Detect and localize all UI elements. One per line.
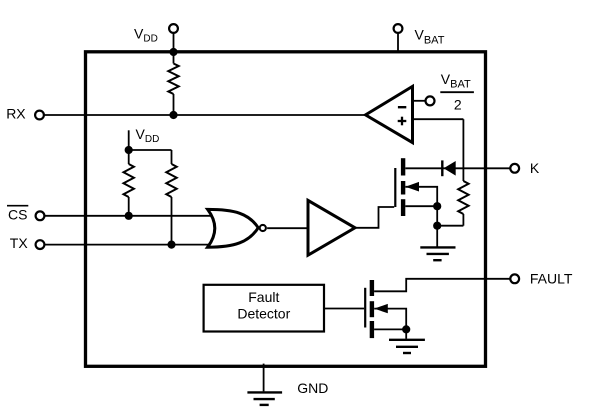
transistor Q2 (FAULT output NMOS) [365,280,388,338]
resistor R4 (K sense) [437,119,468,226]
pin K terminal [510,160,540,176]
wire buffer output to Q1 gate [355,207,394,228]
wire NOR output to buffer [267,227,309,229]
wire to ground [436,226,438,247]
pin FAULT terminal [510,270,573,286]
node resistor R4 junction [433,222,441,230]
node Q2 source junction [402,325,410,333]
node TX junction [167,241,175,249]
NOR gate U1 [208,209,266,247]
wire inverting input [413,100,426,102]
wire CS line to NOR input [44,215,214,217]
wire VDD stub [128,130,130,150]
wire K line (Q1 drain to K pin) [405,167,510,169]
svg-text:2: 2 [454,96,462,112]
pin RX terminal [6,105,44,121]
ground (below Q2) [389,340,425,353]
svg-text:RX: RX [6,105,26,121]
resistor R2 (pull-up to CS line) [123,150,133,216]
wire TX line to NOR input [44,244,214,246]
wire RX line to comparator output [44,114,366,116]
node CS junction [125,212,133,220]
transistor Q1 (K-line driver NMOS) [395,158,419,216]
svg-text:TX: TX [10,235,29,251]
pin VBAT/2 reference terminal [426,96,435,105]
pin VBAT terminal [394,24,403,53]
wire Q1 body to source node [405,187,437,206]
diode D1 [442,160,455,176]
svg-text:Fault: Fault [248,289,279,305]
resistor R3 (pull-up to TX line) [166,150,176,245]
pin VDD terminal [169,24,178,53]
wire non-inverting input to K node [413,118,464,120]
wire VDD rail [129,149,172,151]
comparator U3 (RX receiver) [366,86,413,142]
IC boundary box [86,52,486,367]
Fault Detector block [204,285,324,332]
node VDD rail junction [125,146,133,154]
wire Q2 source [374,328,406,330]
node VDD junction on box edge [169,48,177,56]
pin CS terminal [7,206,44,223]
resistor R1 (VDD to RX line) [168,52,178,115]
pin GND [247,364,328,405]
label VBAT/2 fraction [440,71,474,113]
svg-text:Detector: Detector [237,305,290,321]
buffer U2 [308,200,355,255]
wire Fault Detector to Q2 gate [324,308,364,310]
svg-text:K: K [530,160,540,176]
svg-text:GND: GND [297,380,328,396]
ground (below Q1) [420,247,455,260]
pin TX terminal [10,235,45,251]
wire Q2 drain to FAULT pin [374,279,510,292]
svg-text:CS: CS [8,206,27,222]
node Q1 source junction [433,202,441,210]
wire Q1 source [405,205,437,207]
node RX junction [169,111,177,119]
wire Q2 body to source node [374,309,406,330]
wire source node down [436,206,438,226]
wire to ground [405,329,407,338]
svg-text:FAULT: FAULT [530,270,573,286]
